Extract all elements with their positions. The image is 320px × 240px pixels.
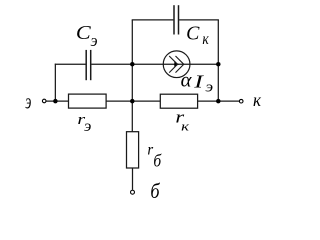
wire C_e branch right [91,63,132,65]
svg-text:б: б [150,180,160,204]
svg-text:C: C [76,21,92,44]
wire C_e branch vertical [54,64,56,102]
terminal к [239,99,243,103]
label r_э [77,110,91,135]
svg-text:э: э [84,117,91,135]
wire C_e branch left [55,63,86,65]
svg-text:э: э [25,90,31,114]
node junction right at current-source wire [216,62,221,67]
terminal э [42,99,46,103]
node junction central at current-source wire [130,62,135,67]
node junction central at main wire [130,99,135,104]
svg-text:к: к [181,120,190,134]
wire main horizontal emitter-side [46,100,69,102]
label C_к [186,22,210,48]
node junction at emitter left [53,99,58,104]
svg-text:э: э [91,30,98,50]
wire central vertical [131,20,133,132]
node junction right at main wire [216,99,221,104]
wire base lead [132,168,134,190]
wire top branch right [179,19,219,21]
terminal б [131,190,135,194]
capacitor C_э [86,50,91,80]
wire right vertical [217,20,219,101]
svg-text:I: I [193,71,205,91]
capacitor C_к [174,5,179,34]
resistor r_б [127,132,139,168]
label r_к [175,108,190,133]
wire main horizontal collector-side [197,100,239,102]
label C_э [76,21,98,50]
svg-text:r: r [147,141,153,158]
svg-text:C: C [186,22,200,44]
svg-text:к: к [253,89,262,110]
svg-text:э: э [205,79,213,95]
label r_б [147,141,161,171]
svg-text:б: б [153,151,161,171]
wire current source branch [132,63,218,65]
resistor r_э [69,94,107,108]
svg-text:к: к [202,31,209,48]
current source U1 (alpha I_э) [163,51,190,78]
label alpha I_э [181,70,214,96]
wire main horizontal middle [106,100,161,102]
wire top branch left [132,19,174,21]
svg-text:α: α [181,70,193,92]
resistor r_к [160,94,197,108]
